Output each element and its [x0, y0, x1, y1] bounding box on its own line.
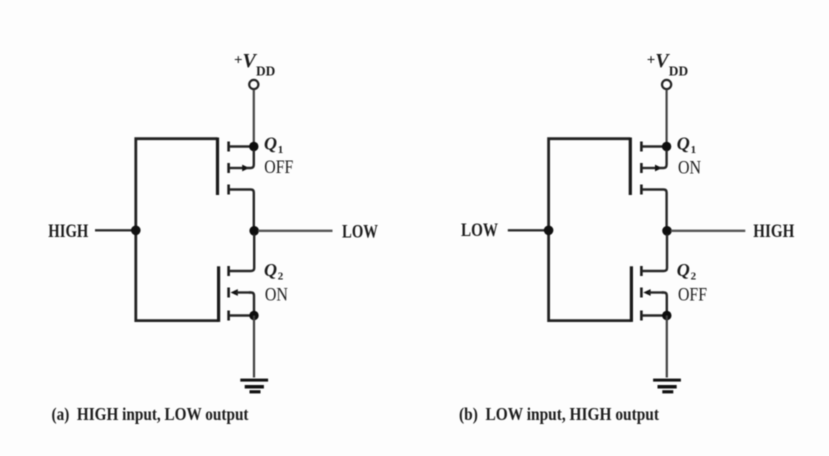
svg-text:OFF: OFF	[264, 157, 293, 178]
svg-text:(a) HIGH input, LOW output: (a) HIGH input, LOW output	[52, 404, 249, 425]
svg-text:LOW: LOW	[461, 220, 498, 241]
svg-text:HIGH: HIGH	[48, 221, 88, 242]
svg-text:HIGH: HIGH	[753, 221, 794, 242]
svg-text:LOW: LOW	[342, 222, 378, 243]
svg-text:OFF: OFF	[678, 284, 707, 305]
svg-text:(b) LOW input, HIGH output: (b) LOW input, HIGH output	[459, 404, 659, 425]
svg-text:ON: ON	[678, 157, 701, 178]
svg-text:ON: ON	[265, 284, 288, 305]
